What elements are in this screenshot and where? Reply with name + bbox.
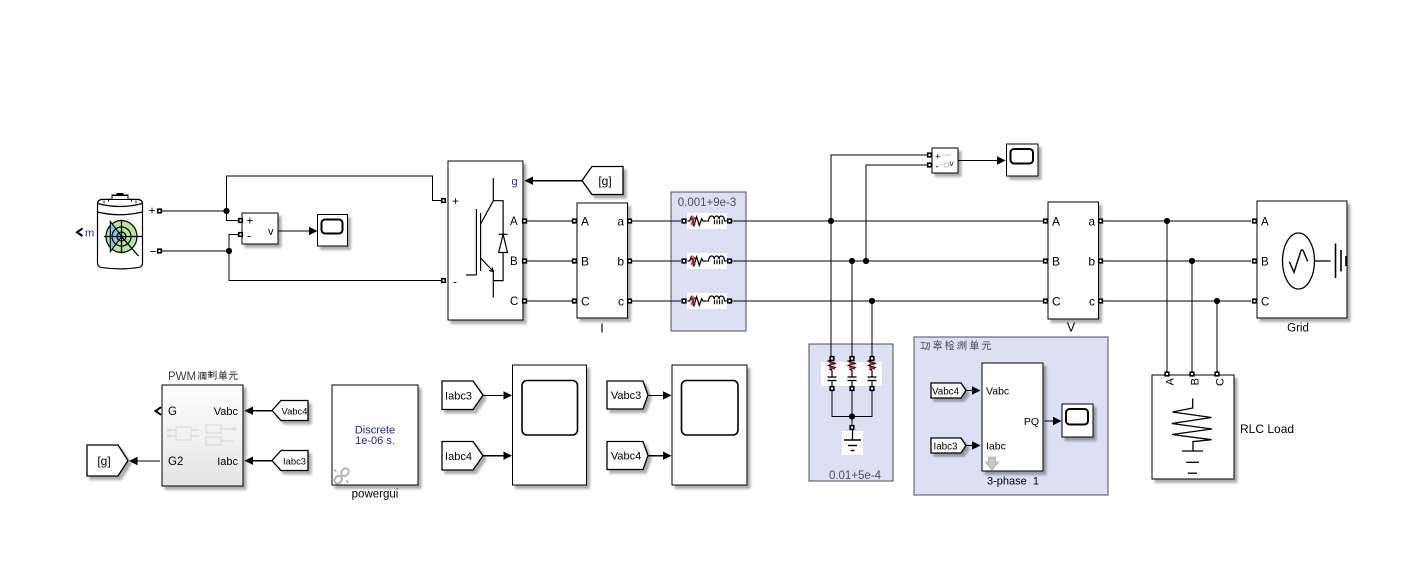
svg-text:RLC Load: RLC Load [1240,422,1294,436]
svg-text:Iabc: Iabc [217,456,238,468]
svg-text:-: - [936,162,939,173]
svg-text:PWM: PWM [168,371,196,383]
svg-text:PQ: PQ [1024,416,1039,428]
svg-text:3-phase 1: 3-phase 1 [987,476,1039,488]
svg-text:A: A [1164,377,1176,385]
svg-text:Vabc3: Vabc3 [611,390,641,402]
svg-text:1e-06 s.: 1e-06 s. [355,435,395,447]
svg-text:Vabc: Vabc [986,386,1009,398]
svg-text:B: B [510,256,518,268]
svg-text:-: - [453,275,457,289]
svg-text:c: c [618,295,624,309]
svg-text:a: a [1088,215,1095,229]
svg-text:C: C [510,296,518,308]
svg-text:Iabc3: Iabc3 [445,390,472,402]
svg-text:C: C [581,295,590,309]
svg-text:c: c [1089,295,1095,309]
svg-text:C: C [1052,295,1061,309]
svg-text:B: B [1189,378,1201,385]
svg-text:b: b [1088,255,1095,269]
svg-text:Vabc4: Vabc4 [932,386,960,397]
svg-text:a: a [617,215,624,229]
svg-text:Iabc4: Iabc4 [445,451,472,463]
svg-text:G2: G2 [168,456,183,468]
svg-text:B: B [1052,255,1060,269]
svg-text:b: b [617,255,624,269]
svg-text:A: A [1052,215,1060,229]
svg-text:A: A [1261,217,1269,229]
svg-text:+: + [247,216,254,228]
svg-text:Iabc3: Iabc3 [934,441,959,452]
svg-text:[g]: [g] [598,174,611,188]
svg-text:Iabc3: Iabc3 [283,455,306,466]
svg-text:powergui: powergui [352,489,399,501]
svg-text:A: A [510,216,518,228]
svg-text:Grid: Grid [1287,323,1309,335]
svg-text:A: A [581,215,589,229]
svg-text:0.001+9e-3: 0.001+9e-3 [678,197,737,209]
svg-text:m: m [85,228,94,240]
svg-text:−: − [150,245,157,259]
svg-text:B: B [581,255,589,269]
svg-text:C: C [1214,378,1226,386]
svg-text:V: V [1067,321,1076,335]
svg-text:Vabc: Vabc [214,406,239,418]
svg-text:B: B [1261,257,1269,269]
svg-text:[g]: [g] [97,454,110,468]
svg-text:g: g [512,176,518,188]
svg-text:-: - [247,231,251,243]
svg-text:Vabc4: Vabc4 [611,451,641,463]
svg-text:0.01+5e-4: 0.01+5e-4 [829,470,882,482]
svg-text:Vabc4: Vabc4 [282,405,308,416]
svg-text:+: + [452,194,459,208]
svg-text:+: + [149,204,156,218]
svg-text:G: G [168,406,177,418]
svg-text:C: C [1261,297,1269,309]
svg-text:Iabc: Iabc [986,441,1006,453]
svg-text:I: I [600,322,603,336]
svg-text:v: v [268,226,274,238]
